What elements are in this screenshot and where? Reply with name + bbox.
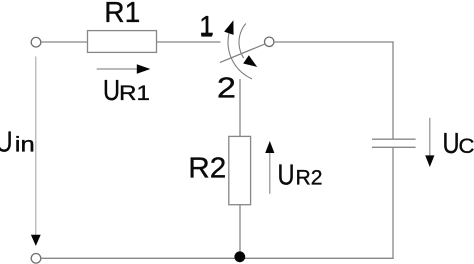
- resistor R1: [88, 31, 157, 53]
- voltage arrow UR1: [97, 64, 151, 73]
- svg-text:R1: R1: [119, 82, 150, 105]
- switch outer arc with arrow: [224, 20, 252, 79]
- voltage arrow Uin: [31, 57, 41, 247]
- voltage arrow UC: [425, 118, 434, 167]
- switch pivot terminal: [265, 37, 274, 46]
- svg-text:U: U: [103, 75, 120, 107]
- wire: R1 to switch contact 1: [157, 41, 221, 43]
- switch lever: [220, 44, 265, 62]
- junction node dot: [234, 251, 245, 262]
- svg-text:in: in: [15, 134, 35, 157]
- svg-text:R1: R1: [104, 0, 140, 29]
- svg-text:U: U: [278, 160, 295, 192]
- wire: bottom rail: [41, 257, 394, 259]
- wire: switch to top-right corner: [274, 41, 394, 43]
- wire: contact 2 down to R2: [239, 79, 241, 136]
- wire: input terminal to R1: [41, 41, 87, 43]
- svg-text:U: U: [0, 127, 13, 159]
- terminal: input bottom-left: [31, 253, 41, 263]
- resistor R2: [229, 136, 251, 204]
- svg-text:R2: R2: [296, 167, 323, 190]
- capacitor C bottom plate: [372, 146, 416, 148]
- svg-text:R2: R2: [188, 152, 226, 184]
- wire: R2 down to bottom rail: [239, 205, 241, 259]
- svg-text:2: 2: [217, 72, 236, 104]
- svg-text:U: U: [443, 128, 460, 160]
- voltage arrow UR2: [265, 141, 274, 194]
- wire: right side down to capacitor: [392, 41, 394, 139]
- terminal: input top-left: [31, 37, 41, 47]
- capacitor C top plate: [372, 138, 416, 140]
- switch inner arc with arrow: [239, 24, 257, 67]
- wire: capacitor down to bottom rail: [392, 147, 394, 258]
- svg-text:C: C: [459, 135, 474, 158]
